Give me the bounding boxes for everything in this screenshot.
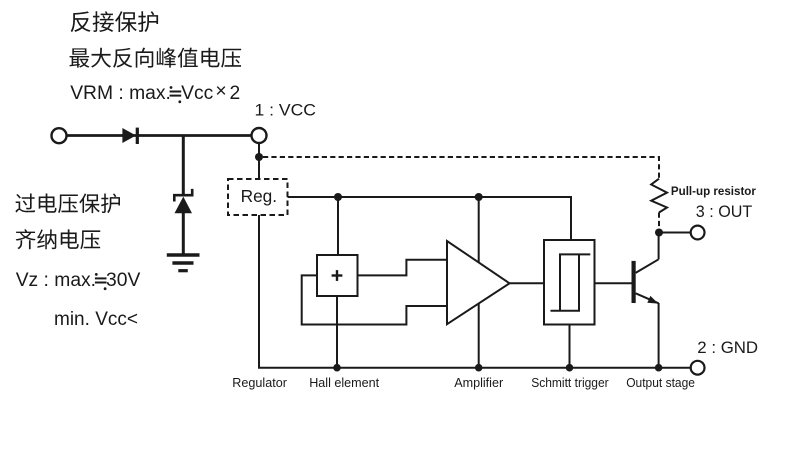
- node: amplifier ground: [475, 364, 483, 372]
- svg-text:2: 2: [230, 83, 241, 104]
- wire: OUT node to terminal: [659, 232, 691, 234]
- wire: schmitt to ground rail: [569, 325, 571, 368]
- node: rail to amplifier: [475, 193, 483, 201]
- svg-text:Regulator: Regulator: [232, 376, 287, 390]
- label: +: [332, 270, 343, 281]
- wire: hall output upper to amplifier: [358, 260, 448, 276]
- resistor: pull-up: [651, 179, 667, 213]
- terminal pin 3 OUT: [691, 226, 705, 240]
- svg-text:Hall element: Hall element: [309, 376, 379, 390]
- note: reverse-connection protection (Chinese): [71, 11, 158, 32]
- svg-text:min. Vcc<: min. Vcc<: [54, 309, 138, 330]
- note: maximum reverse peak voltage (Chinese): [70, 48, 242, 68]
- wire: branch to zener: [182, 136, 185, 197]
- op-amp amplifier: [447, 241, 510, 324]
- svg-text:2 : GND: 2 : GND: [697, 338, 758, 357]
- wire: hall to ground rail: [336, 296, 338, 368]
- svg-text:Schmitt trigger: Schmitt trigger: [531, 376, 609, 390]
- node: rail to hall: [334, 193, 342, 201]
- transistor Q1 output stage: [634, 259, 659, 303]
- ground symbol: [167, 255, 200, 271]
- wire: VCC stub to regulator: [258, 143, 260, 180]
- wire: hall output lower to amplifier: [302, 275, 447, 324]
- wire: schmitt to transistor base: [595, 282, 633, 284]
- node: OUT junction: [655, 229, 663, 237]
- svg-text:Amplifier: Amplifier: [454, 376, 503, 390]
- svg-text:VRM : max.: VRM : max.: [70, 83, 171, 104]
- svg-text:3 : OUT: 3 : OUT: [696, 202, 753, 221]
- wire: emitter to ground rail: [658, 303, 660, 368]
- terminal pin 1 VCC: [252, 128, 267, 143]
- node: emitter ground: [655, 364, 663, 372]
- svg-text:Output stage: Output stage: [626, 376, 695, 390]
- svg-text:×: ×: [215, 81, 226, 102]
- svg-text:Pull-up resistor: Pull-up resistor: [671, 184, 756, 198]
- note: zener voltage (Chinese): [16, 229, 101, 249]
- diode D1 reverse protection: [122, 128, 137, 144]
- note: overvoltage protection (Chinese): [15, 193, 120, 213]
- svg-text:Vcc: Vcc: [181, 83, 214, 104]
- node: VCC junction: [255, 153, 263, 161]
- schmitt trigger U2: [544, 240, 595, 325]
- wire: dashed resistor to OUT node: [658, 213, 660, 233]
- wire: regulator output rail: [288, 197, 572, 240]
- svg-text:Reg.: Reg.: [241, 186, 278, 206]
- svg-text:30V: 30V: [106, 270, 140, 291]
- wire: dashed VCC rail to pull-up: [263, 157, 659, 179]
- wire: amplifier supply (passes behind op-amp): [478, 197, 480, 368]
- wire: regulator to ground rail: [259, 215, 691, 368]
- node: schmitt ground: [566, 364, 574, 372]
- regulator U1: [228, 179, 288, 215]
- node: hall ground: [333, 364, 341, 372]
- wire: input to VCC terminal: [67, 134, 252, 137]
- hall element X1: [317, 255, 358, 296]
- zener diode Z1: [174, 189, 192, 254]
- wire: rail to hall element: [337, 197, 339, 255]
- terminal pin 2 GND: [691, 361, 705, 375]
- terminal: supply input: [52, 128, 67, 143]
- svg-text:1 : VCC: 1 : VCC: [255, 101, 317, 119]
- svg-text:Vz : max.: Vz : max.: [16, 270, 96, 291]
- wire: collector to OUT node: [658, 233, 660, 260]
- wire: amplifier to schmitt: [510, 282, 545, 284]
- hysteresis symbol: [551, 254, 591, 310]
